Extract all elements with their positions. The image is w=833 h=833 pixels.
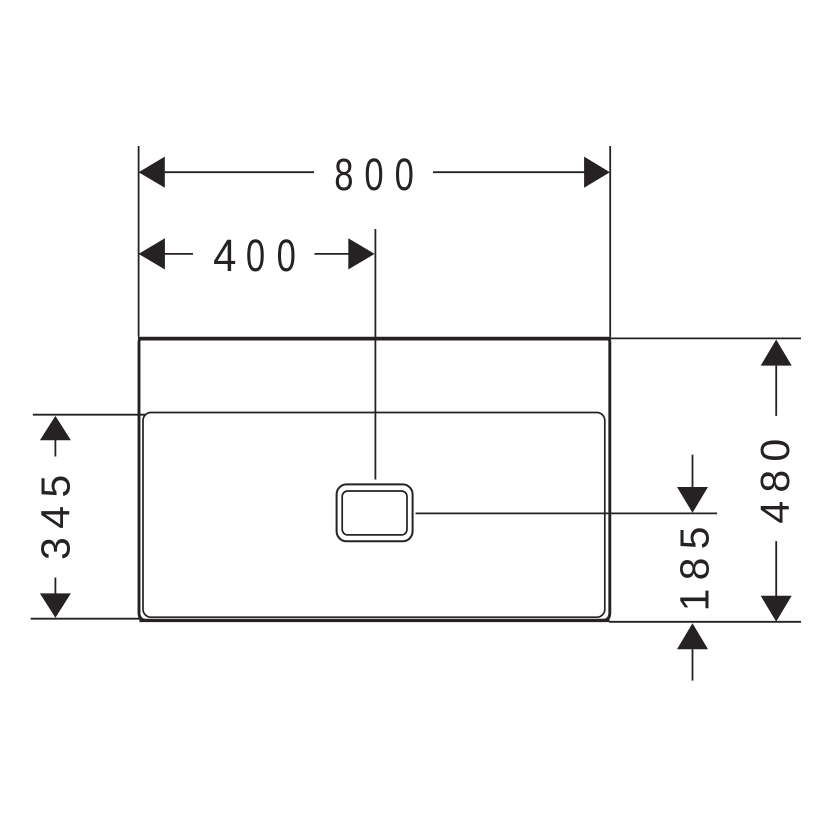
dimension line 400 right segment <box>315 253 350 255</box>
dimension line 185 lower tail <box>692 649 694 680</box>
dimension line 345 lower tail <box>54 578 56 594</box>
arrow 800 left <box>139 157 165 188</box>
extension line 480 bottom <box>609 621 801 623</box>
extension line 800 right <box>609 146 611 337</box>
basin outer outline <box>139 339 610 621</box>
dimension line 480 lower tail <box>775 541 777 596</box>
dimension line 800 right segment <box>433 171 585 173</box>
basin top edge thick line <box>138 337 611 341</box>
arrow 345 up <box>40 416 71 440</box>
faucet hole inner <box>342 491 407 535</box>
dimension line 480 upper tail <box>775 366 777 416</box>
dimension line 400 left segment <box>164 253 193 255</box>
svg-text:0: 0 <box>752 439 798 462</box>
svg-text:0: 0 <box>395 148 414 200</box>
svg-text:4: 4 <box>33 506 79 529</box>
arrow 480 down <box>761 596 792 622</box>
dimension line 800 left segment <box>164 171 314 173</box>
svg-text:5: 5 <box>33 475 79 498</box>
extension line 345 bottom <box>31 618 140 620</box>
extension line 185 hole centre <box>416 512 718 514</box>
arrow 400 left <box>139 238 165 269</box>
arrow 345 down <box>40 593 71 617</box>
extension line 800 left <box>138 146 140 337</box>
arrow 185 down <box>677 487 708 513</box>
svg-text:8: 8 <box>334 148 353 200</box>
dimension line 345 upper tail <box>54 440 56 457</box>
svg-text:8: 8 <box>672 558 718 581</box>
arrow 800 right <box>584 157 610 188</box>
svg-text:3: 3 <box>33 537 79 560</box>
extension line 345 top <box>33 414 146 416</box>
faucet hole outer <box>337 484 413 541</box>
dimension line 185 upper tail <box>692 455 694 488</box>
basin bottom edge thick line <box>140 619 610 622</box>
extension line 480 top <box>609 337 801 339</box>
arrow 185 up <box>677 623 708 649</box>
svg-text:4: 4 <box>752 501 798 524</box>
basin inner rim <box>143 413 605 618</box>
svg-text:1: 1 <box>672 589 718 612</box>
svg-text:0: 0 <box>364 148 383 200</box>
svg-text:4: 4 <box>213 230 236 281</box>
arrow 480 up <box>761 340 792 366</box>
svg-text:8: 8 <box>752 470 798 493</box>
svg-text:0: 0 <box>246 229 265 281</box>
svg-text:0: 0 <box>277 229 296 281</box>
arrow 400 right <box>348 238 374 269</box>
svg-text:5: 5 <box>672 527 718 550</box>
extension line 400 centre <box>374 229 376 480</box>
